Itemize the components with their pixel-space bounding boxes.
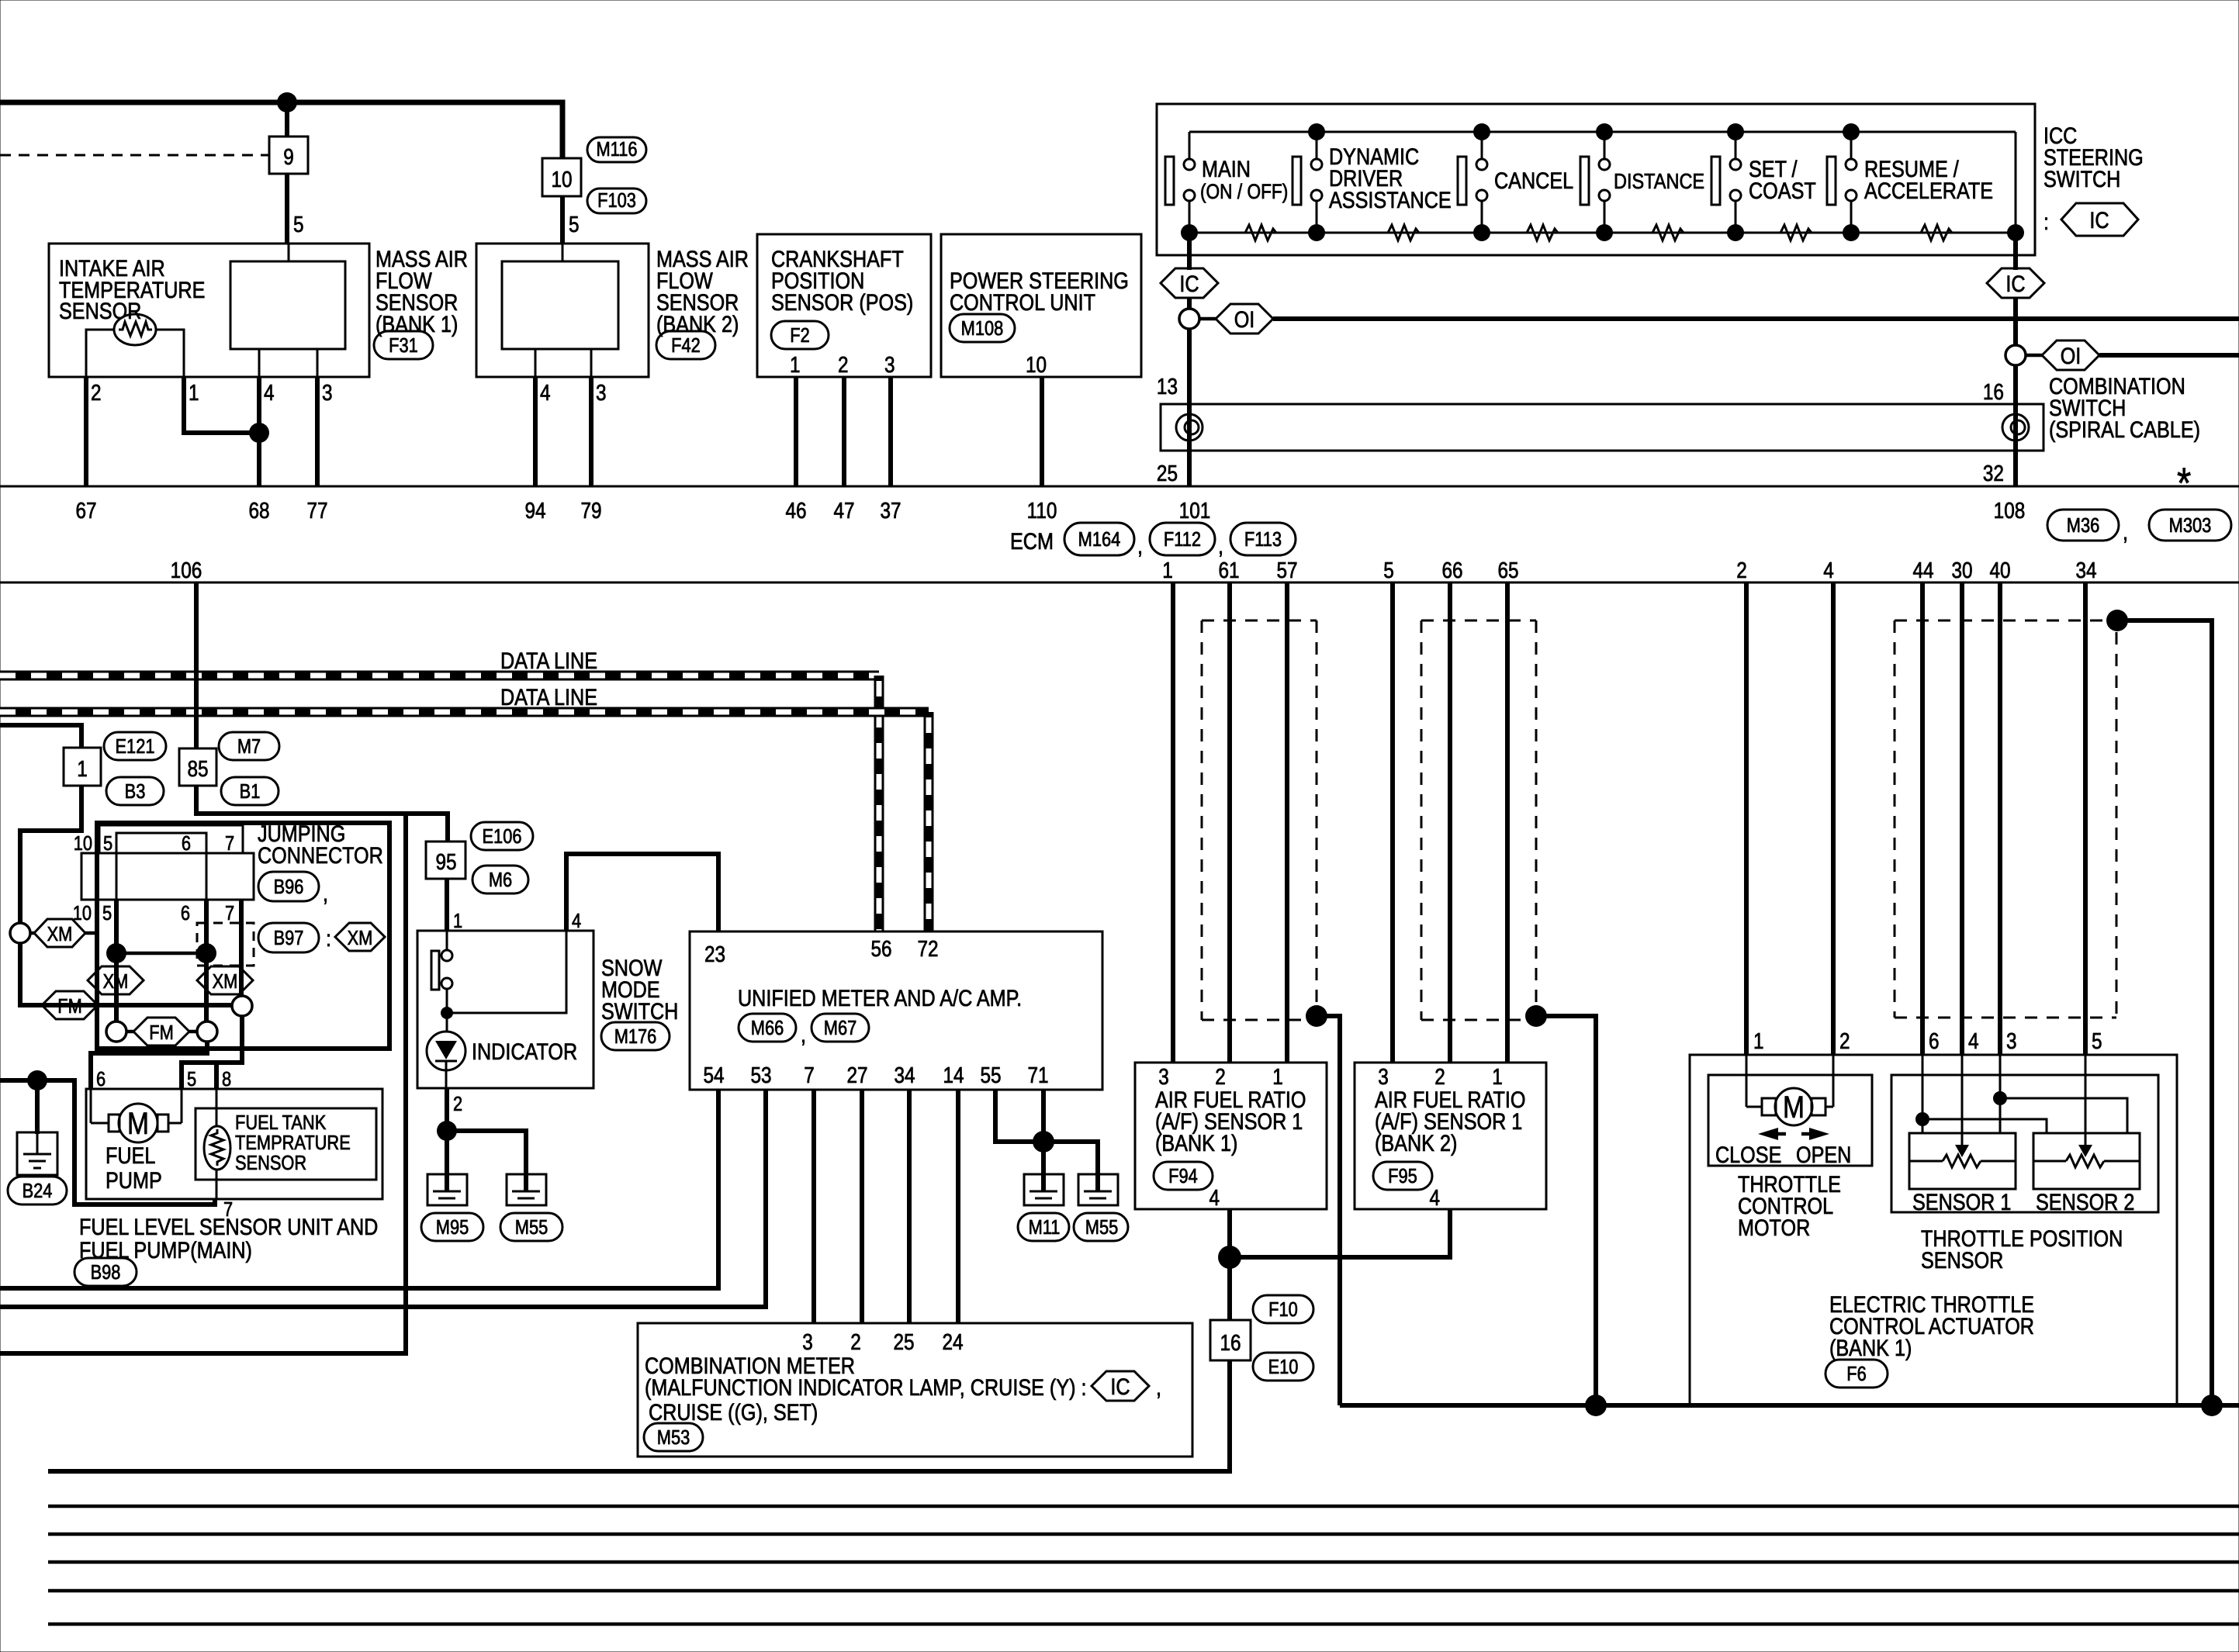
switch MAIN bbox=[1165, 132, 1288, 241]
svg-text:108: 108 bbox=[1994, 498, 2026, 523]
wire: FM row joins bbox=[126, 1030, 197, 1034]
svg-text:40: 40 bbox=[1989, 558, 2010, 582]
svg-text:3: 3 bbox=[1378, 1064, 1389, 1089]
svg-text:16: 16 bbox=[1220, 1330, 1241, 1355]
svg-text:4: 4 bbox=[1209, 1185, 1220, 1210]
svg-text:OI: OI bbox=[2061, 343, 2082, 369]
svg-text::: : bbox=[326, 925, 331, 952]
node circle FM row right bbox=[197, 1021, 217, 1042]
hexagon IC comb meter bbox=[1092, 1371, 1149, 1401]
THROTTLE POSITION SENSOR label bbox=[1921, 1225, 2123, 1274]
MAF1 inner sensor body bbox=[230, 261, 345, 349]
svg-text:IC: IC bbox=[2089, 207, 2109, 233]
svg-text:25: 25 bbox=[893, 1329, 914, 1354]
switch snow mode bbox=[431, 931, 452, 1008]
hexagon XM legend bbox=[335, 923, 385, 951]
COMBINATION SWITCH label bbox=[2049, 373, 2200, 507]
junction pin6 bbox=[1915, 1112, 1929, 1126]
svg-text:SENSOR 2: SENSOR 2 bbox=[2036, 1189, 2134, 1215]
svg-text:SENSOR (POS): SENSOR (POS) bbox=[771, 289, 913, 316]
connector M55 bbox=[500, 1213, 562, 1241]
junction 55/71 bbox=[1033, 1131, 1054, 1153]
svg-text:25: 25 bbox=[1157, 461, 1178, 486]
svg-text:M66: M66 bbox=[751, 1017, 784, 1039]
wire: pin7 column bbox=[239, 900, 244, 997]
svg-text:10: 10 bbox=[73, 902, 92, 924]
svg-text:1: 1 bbox=[1492, 1064, 1503, 1089]
wire: MAF2 inner pin3 bbox=[590, 349, 593, 377]
wire: node to OI hexagon bbox=[1199, 317, 1216, 321]
svg-text:72: 72 bbox=[917, 936, 938, 961]
svg-text:2: 2 bbox=[453, 1093, 462, 1115]
connector 1 (E121/B3) bbox=[64, 748, 101, 786]
wire: shield ground bus bbox=[1340, 1403, 2239, 1408]
svg-text:2: 2 bbox=[1215, 1064, 1226, 1089]
svg-text:IC: IC bbox=[2005, 271, 2025, 297]
ECM pin numbers row 1 bbox=[75, 498, 2025, 523]
spiral cable symbol left bbox=[1176, 414, 1203, 441]
svg-text:85: 85 bbox=[187, 756, 208, 781]
wire: pin5 internal MAF1 bbox=[288, 244, 290, 261]
dashed connector B97 area bbox=[197, 923, 254, 966]
junction bus/box9 bbox=[277, 92, 297, 112]
wire: node to XM to box edge bbox=[30, 931, 99, 935]
svg-text:B3: B3 bbox=[125, 780, 146, 803]
ICC inner right edge bbox=[2015, 132, 2017, 233]
svg-text:1: 1 bbox=[453, 910, 462, 932]
svg-text:XM: XM bbox=[103, 970, 129, 993]
svg-text:55: 55 bbox=[980, 1063, 1001, 1087]
resistor ICC r1 bbox=[1245, 225, 1276, 240]
connector 16 (F10/E10) bbox=[1210, 1320, 1251, 1360]
svg-text:E10: E10 bbox=[1268, 1356, 1299, 1378]
wire: meter 14 to comb meter 24 bbox=[956, 1090, 960, 1323]
svg-text:16: 16 bbox=[1983, 379, 2004, 404]
svg-text:54: 54 bbox=[703, 1063, 724, 1087]
actuator pin labels bbox=[1753, 1028, 2102, 1053]
shield dashed TPS bbox=[1895, 620, 2116, 1018]
wire: snow internal to pin4 bbox=[447, 931, 566, 1013]
svg-text:CLOSE: CLOSE bbox=[1715, 1142, 1781, 1168]
wire: ECM 61 to AF1 pin2 bbox=[1227, 582, 1232, 1063]
ECM label bbox=[1010, 523, 1296, 558]
connector M7 bbox=[219, 732, 279, 760]
comb meter pin labels bbox=[802, 1329, 963, 1354]
svg-text:F95: F95 bbox=[1388, 1165, 1417, 1187]
svg-text:14: 14 bbox=[943, 1063, 964, 1087]
hexagon XM top bbox=[34, 919, 85, 947]
wire: AF2 shield to ground bus bbox=[1536, 1016, 1596, 1405]
svg-text:IC: IC bbox=[1110, 1374, 1130, 1400]
wire: snow pin2 down bbox=[445, 1088, 449, 1176]
svg-text:E121: E121 bbox=[116, 735, 155, 758]
svg-text:MOTOR: MOTOR bbox=[1738, 1215, 1810, 1241]
wire: MAF2 pin4 to ECM 94 bbox=[533, 377, 538, 486]
connector M53 bbox=[644, 1423, 703, 1451]
JUMPING CONNECTOR label bbox=[258, 821, 383, 869]
wire: power bus top bbox=[0, 102, 562, 158]
bus line 5 bbox=[48, 1623, 2239, 1626]
wire: AF1 pin4 down bbox=[1227, 1209, 1232, 1320]
svg-text:5: 5 bbox=[103, 832, 112, 855]
wire: meter 54 long left bbox=[0, 1090, 718, 1288]
svg-text:34: 34 bbox=[894, 1063, 915, 1087]
svg-text:1: 1 bbox=[790, 352, 801, 377]
wire: crank pin1 to ECM 46 bbox=[794, 377, 798, 486]
wire: node to OI hexagon right bbox=[2026, 354, 2042, 358]
svg-text:XM: XM bbox=[348, 927, 373, 949]
ground M95 bbox=[427, 1174, 467, 1205]
svg-text:(BANK 1): (BANK 1) bbox=[375, 311, 458, 337]
svg-text:(BANK 2): (BANK 2) bbox=[656, 311, 739, 337]
wire: ground branch left bbox=[0, 1080, 215, 1204]
svg-text:4: 4 bbox=[540, 380, 551, 405]
svg-text:4: 4 bbox=[1823, 558, 1834, 582]
svg-text:(BANK 2): (BANK 2) bbox=[1375, 1130, 1457, 1156]
wire: ECM 1 to AF1 pin3 bbox=[1171, 582, 1175, 1063]
svg-text:37: 37 bbox=[880, 498, 901, 523]
CLOSE OPEN label bbox=[1715, 1142, 1851, 1168]
svg-text:95: 95 bbox=[435, 849, 456, 874]
svg-text:F103: F103 bbox=[597, 189, 636, 212]
THROTTLE CONTROL MOTOR label bbox=[1738, 1171, 1841, 1241]
wire: pin3 to ECM 77 bbox=[315, 377, 320, 486]
svg-text:13: 13 bbox=[1157, 374, 1178, 399]
power steering control unit box M108 bbox=[941, 234, 1141, 377]
svg-text:XM: XM bbox=[47, 923, 73, 945]
ECM top line bbox=[0, 486, 2239, 488]
connector E121 bbox=[104, 732, 166, 760]
hexagon OI right bbox=[2042, 340, 2099, 370]
svg-text:(BANK 1): (BANK 1) bbox=[1155, 1130, 1237, 1156]
svg-text:4: 4 bbox=[264, 380, 275, 405]
wire: E10 down-left long bbox=[48, 1360, 1230, 1471]
svg-text:F6: F6 bbox=[1846, 1363, 1866, 1385]
SENSOR labels bbox=[1912, 1189, 2134, 1215]
fuel tank temperature sensor box bbox=[196, 1108, 376, 1180]
wire: pin7 circle down to fuel pin5 bbox=[182, 1016, 242, 1089]
wire: MAF1 inner pin3 bbox=[317, 349, 319, 377]
svg-text:9: 9 bbox=[283, 144, 294, 169]
pin labels crank bbox=[790, 352, 895, 377]
pin 56 72 labels bbox=[870, 936, 938, 961]
hexagon IC right bbox=[1987, 268, 2044, 298]
electric throttle control actuator box F6 bbox=[1690, 1055, 2177, 1405]
svg-text:3: 3 bbox=[322, 380, 333, 405]
wire: pin2 to ECM 67 bbox=[84, 377, 88, 486]
svg-text:M6: M6 bbox=[489, 869, 512, 891]
svg-text:2: 2 bbox=[91, 380, 102, 405]
svg-text:1: 1 bbox=[1272, 1064, 1283, 1089]
svg-text:MAIN: MAIN bbox=[1202, 156, 1251, 182]
meter bottom pin labels bbox=[703, 1063, 1048, 1087]
wire: ECM 66 to AF2 pin2 bbox=[1448, 582, 1452, 1063]
svg-text:67: 67 bbox=[75, 498, 96, 523]
connector E106 bbox=[471, 822, 533, 850]
svg-text:1: 1 bbox=[1753, 1028, 1764, 1053]
svg-text:5: 5 bbox=[293, 212, 304, 237]
jumping connector jumper bar bbox=[116, 833, 206, 853]
wire: ICC MAIN column down bbox=[1187, 233, 1192, 270]
svg-text:94: 94 bbox=[524, 498, 545, 523]
svg-text:5: 5 bbox=[102, 902, 112, 924]
wire: right node down to spiral 16 bbox=[2013, 365, 2018, 486]
sensor2 sub box bbox=[2033, 1133, 2140, 1189]
FUEL TANK TEMPRATURE SENSOR label bbox=[235, 1111, 351, 1174]
junction AF2 shield bbox=[1525, 1005, 1547, 1027]
node circle XM top bbox=[10, 923, 30, 943]
svg-text:M176: M176 bbox=[614, 1025, 657, 1048]
svg-text:DISTANCE: DISTANCE bbox=[1614, 170, 1704, 193]
svg-text:(ON / OFF): (ON / OFF) bbox=[1200, 180, 1288, 203]
svg-text:SENSOR: SENSOR bbox=[59, 298, 141, 324]
ELECTRIC THROTTLE CONTROL ACTUATOR label bbox=[1829, 1291, 2034, 1361]
svg-text:5: 5 bbox=[1383, 558, 1394, 582]
ground M11 bbox=[1024, 1174, 1064, 1205]
svg-text:FM: FM bbox=[57, 995, 82, 1018]
fuel level sensor unit box bbox=[86, 1089, 382, 1199]
wire: down to B24 ground bbox=[35, 1080, 40, 1134]
hexagon FM right bbox=[133, 1018, 189, 1045]
svg-text:1: 1 bbox=[189, 380, 199, 405]
mass air flow sensor bank1 box F31 bbox=[49, 244, 369, 377]
svg-text:2: 2 bbox=[838, 352, 849, 377]
svg-text:4: 4 bbox=[1429, 1185, 1440, 1210]
connector B24 bbox=[8, 1177, 67, 1204]
svg-text:6: 6 bbox=[96, 1068, 106, 1090]
wire: IC to node left bbox=[1187, 298, 1192, 309]
throttle position sensor box bbox=[1891, 1075, 2158, 1212]
wire: TPS shield to ground bus bbox=[2117, 620, 2212, 1405]
mass air flow sensor bank2 box F42 bbox=[476, 244, 649, 377]
connector F6 bbox=[1825, 1360, 1888, 1388]
switch SET/COAST bbox=[1711, 123, 1816, 241]
connector M67 bbox=[812, 1014, 869, 1042]
wire: TPS pin6 bbox=[1922, 1055, 1924, 1133]
svg-text:B24: B24 bbox=[22, 1180, 53, 1202]
ground M55 meter bbox=[1078, 1174, 1118, 1205]
node circle pin7 bbox=[232, 996, 252, 1016]
hexagon XM mid-left bbox=[88, 966, 144, 994]
connector F95 bbox=[1373, 1162, 1432, 1190]
wire: OI line to right edge bbox=[1273, 316, 2239, 321]
hexagon FM left bbox=[42, 991, 98, 1019]
wire: branch to M55 ground bbox=[447, 1131, 526, 1176]
svg-text:SENSOR: SENSOR bbox=[235, 1152, 306, 1174]
svg-text:106: 106 bbox=[171, 558, 202, 582]
svg-text:SWITCH: SWITCH bbox=[601, 998, 678, 1025]
pin labels MAF2 bbox=[540, 380, 607, 405]
hexagon XM mid-right bbox=[197, 966, 253, 994]
junction ground bus AF2 bbox=[1585, 1395, 1607, 1416]
wire: left branch into connector 1 bbox=[0, 725, 81, 748]
svg-text:101: 101 bbox=[1179, 498, 1211, 523]
svg-text:B98: B98 bbox=[91, 1261, 121, 1284]
svg-text:66: 66 bbox=[1441, 558, 1462, 582]
svg-text:F113: F113 bbox=[1244, 528, 1282, 551]
connector 85 (M7/B1) bbox=[179, 748, 216, 786]
wire: AF1 shield to ground bus bbox=[1317, 1016, 1340, 1405]
fuel pump motor M bbox=[91, 1089, 182, 1142]
ground B24 bbox=[17, 1132, 57, 1175]
wire: ECM 34 to TPS pin5 bbox=[2083, 582, 2088, 1055]
motor arrows bbox=[1758, 1128, 1829, 1140]
wire: connector 85 down to junction bbox=[196, 786, 448, 842]
svg-text:2: 2 bbox=[1736, 558, 1747, 582]
junction ground bus TPS bbox=[2201, 1395, 2223, 1416]
svg-text:CRUISE ((G), SET): CRUISE ((G), SET) bbox=[649, 1399, 818, 1426]
bus line 4 bbox=[48, 1589, 2239, 1593]
throttle control motor box bbox=[1708, 1075, 1872, 1166]
connector 9 bbox=[269, 137, 308, 174]
node circle right OI bbox=[2005, 345, 2026, 365]
junction ICC bottom-right bbox=[2007, 224, 2024, 241]
wire: meter 53 long left bbox=[0, 1090, 766, 1307]
connector B97 bbox=[258, 923, 331, 952]
connector B3 bbox=[106, 777, 164, 805]
wire: meter 71 to ground M11 bbox=[1041, 1090, 1046, 1176]
wire: IC right down through OI line bbox=[2013, 298, 2018, 345]
svg-text:110: 110 bbox=[1027, 498, 1057, 523]
svg-text:1: 1 bbox=[77, 756, 88, 781]
connector F42 bbox=[656, 331, 715, 359]
junction AF1 shield bbox=[1306, 1005, 1327, 1027]
svg-text:7: 7 bbox=[804, 1063, 815, 1087]
resistor ICC r4 bbox=[1652, 225, 1684, 240]
jumping connector strip bbox=[81, 853, 254, 900]
wire: MAF1 inner pin4 bbox=[258, 349, 261, 377]
svg-text:CANCEL: CANCEL bbox=[1494, 168, 1573, 194]
wire: IAT left lead to pin2 bbox=[86, 330, 114, 377]
svg-text:10: 10 bbox=[1026, 352, 1047, 377]
COMBINATION METER label bbox=[645, 1353, 1161, 1426]
junction snow internal bbox=[441, 1007, 453, 1019]
MASS AIR FLOW SENSOR (BANK 2) label bbox=[656, 246, 749, 337]
svg-text:1: 1 bbox=[1162, 558, 1173, 582]
svg-text:68: 68 bbox=[248, 498, 269, 523]
svg-text:M303: M303 bbox=[2169, 514, 2212, 537]
svg-text:PUMP: PUMP bbox=[106, 1167, 162, 1194]
connector F31 bbox=[374, 331, 433, 359]
hexagon IC legend bbox=[2061, 203, 2138, 236]
svg-text:6: 6 bbox=[182, 832, 191, 855]
wire: ECM 5 to AF2 pin3 bbox=[1390, 582, 1395, 1063]
svg-text:*: * bbox=[2177, 458, 2191, 507]
switch DISTANCE bbox=[1580, 123, 1704, 241]
switch RESUME/ACCELERATE bbox=[1827, 123, 1993, 241]
svg-text:INDICATOR: INDICATOR bbox=[472, 1039, 577, 1065]
svg-text:3: 3 bbox=[2006, 1028, 2017, 1053]
svg-text:77: 77 bbox=[306, 498, 327, 523]
intake air temperature sensor label bbox=[59, 255, 205, 324]
LED indicator bbox=[427, 1013, 465, 1088]
connector B98 bbox=[74, 1258, 137, 1286]
svg-text:DATA LINE: DATA LINE bbox=[500, 648, 597, 674]
crankshaft position sensor box F2 bbox=[757, 234, 931, 377]
junction pin3 bbox=[1993, 1091, 2007, 1105]
wire: ECM 65 to AF2 pin1 bbox=[1505, 582, 1510, 1063]
svg-text:F112: F112 bbox=[1164, 528, 1201, 551]
svg-text:SENSOR 1: SENSOR 1 bbox=[1912, 1189, 2011, 1215]
wire: FM line left vertical bbox=[20, 943, 231, 1005]
connector F10 bbox=[1253, 1295, 1313, 1323]
node circle left OI bbox=[1179, 309, 1199, 329]
wire: node to spiral cable 13 bbox=[1187, 329, 1192, 486]
wire: pin6 column bbox=[206, 833, 208, 1021]
svg-text:E106: E106 bbox=[483, 825, 522, 848]
junction AF grounds bbox=[1218, 1246, 1241, 1269]
wire: ECM 44 to TPS pin6 bbox=[1920, 582, 1925, 1055]
svg-text:5: 5 bbox=[2092, 1028, 2102, 1053]
snow mode switch box M176 bbox=[417, 931, 593, 1088]
wire: pin5 column bbox=[116, 833, 118, 1021]
wire: 95 to snow switch pin1 bbox=[445, 879, 449, 931]
svg-text:8: 8 bbox=[222, 1068, 231, 1090]
svg-text:44: 44 bbox=[1912, 558, 1933, 582]
wire: fuel pin8 stub bbox=[214, 1063, 219, 1089]
svg-text:(MALFUNCTION INDICATOR LAMP, C: (MALFUNCTION INDICATOR LAMP, CRUISE (Y) … bbox=[645, 1374, 1087, 1401]
bus line 3 bbox=[48, 1560, 2239, 1564]
wire: ECM 106 down to connector 85 bbox=[194, 582, 199, 748]
connector F94 bbox=[1154, 1162, 1213, 1190]
ground M55 bbox=[507, 1174, 546, 1205]
svg-text:79: 79 bbox=[580, 498, 601, 523]
connector F103 bbox=[587, 188, 646, 213]
svg-text:IC: IC bbox=[1179, 271, 1199, 297]
air fuel ratio sensor bank1 box F94 bbox=[1135, 1063, 1327, 1209]
ECM bottom line bbox=[0, 582, 2239, 584]
svg-text:FM: FM bbox=[149, 1021, 174, 1044]
svg-text:M164: M164 bbox=[1078, 528, 1121, 551]
connector M55 meter bbox=[1074, 1213, 1128, 1241]
svg-text:SWITCH: SWITCH bbox=[2043, 166, 2120, 192]
wire: ECM 4 to motor pin2 bbox=[1831, 582, 1836, 1055]
svg-text:65: 65 bbox=[1497, 558, 1518, 582]
svg-text:2: 2 bbox=[1434, 1064, 1445, 1089]
ICC inner top rail bbox=[1189, 131, 2016, 133]
wire: pin3 cross to sensor2 bbox=[2000, 1098, 2127, 1133]
wire: meter 7 to comb meter 3 bbox=[812, 1090, 816, 1323]
svg-text:10: 10 bbox=[551, 167, 572, 192]
data line 1 bbox=[0, 676, 879, 931]
motor M bbox=[1746, 1055, 1833, 1125]
svg-text:6: 6 bbox=[181, 902, 190, 924]
connector B96 bbox=[258, 872, 328, 906]
air fuel ratio sensor bank2 box F95 bbox=[1355, 1063, 1546, 1209]
switch CANCEL bbox=[1458, 123, 1573, 241]
junction TPS shield bbox=[2106, 610, 2128, 631]
svg-text:,: , bbox=[323, 880, 328, 907]
svg-text:23: 23 bbox=[704, 942, 725, 966]
svg-text:OI: OI bbox=[1234, 306, 1255, 333]
combination meter box M53 bbox=[638, 1323, 1192, 1457]
svg-text:M55: M55 bbox=[1085, 1216, 1118, 1239]
svg-text:M55: M55 bbox=[515, 1216, 548, 1239]
svg-text:,: , bbox=[1137, 533, 1143, 559]
hexagon OI left bbox=[1216, 304, 1273, 334]
connector M176 bbox=[601, 1022, 670, 1050]
svg-text:F10: F10 bbox=[1268, 1298, 1298, 1321]
wire: ECM 2 to motor pin1 bbox=[1744, 582, 1749, 1055]
svg-text:SENSOR: SENSOR bbox=[1921, 1247, 2003, 1274]
svg-text:TEMPRATURE: TEMPRATURE bbox=[235, 1132, 351, 1154]
jumping connector outer box bbox=[97, 823, 389, 1049]
wire: TPS pin3 bbox=[1999, 1055, 2002, 1133]
pin labels bottom row bbox=[73, 902, 234, 924]
svg-text:3: 3 bbox=[1158, 1064, 1169, 1089]
svg-text:34: 34 bbox=[2075, 558, 2096, 582]
wire: ECM 30 to TPS pin4 bbox=[1960, 582, 1964, 1055]
